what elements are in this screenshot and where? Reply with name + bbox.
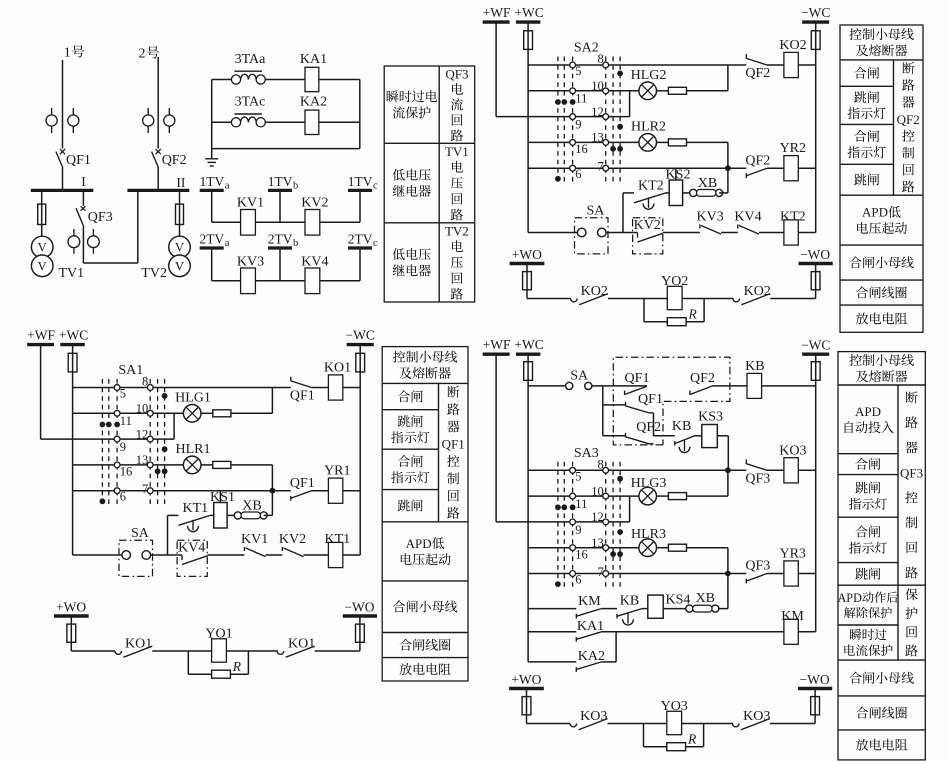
svg-text:KA2: KA2 — [300, 95, 327, 110]
svg-text:KT2: KT2 — [780, 209, 806, 224]
svg-text:3TAa: 3TAa — [235, 52, 267, 67]
svg-text:SA2: SA2 — [574, 41, 599, 56]
svg-text:R: R — [688, 306, 698, 321]
svg-text:KO3: KO3 — [580, 709, 607, 724]
svg-text:+WO: +WO — [56, 599, 86, 614]
svg-text:V: V — [38, 241, 47, 255]
svg-text:HLR1: HLR1 — [176, 442, 211, 457]
svg-text:KS2: KS2 — [666, 167, 691, 182]
svg-text:KA1: KA1 — [577, 619, 604, 634]
svg-text:KT1: KT1 — [324, 532, 350, 547]
svg-text:KO3: KO3 — [779, 443, 806, 458]
svg-text:SA1: SA1 — [118, 363, 143, 378]
svg-text:KV4: KV4 — [178, 541, 205, 556]
svg-text:6: 6 — [575, 572, 581, 586]
svg-text:KS4: KS4 — [666, 592, 691, 607]
svg-text:11: 11 — [575, 92, 587, 106]
svg-text:KV1: KV1 — [241, 532, 268, 547]
svg-text:V: V — [175, 241, 184, 255]
svg-text:KO2: KO2 — [581, 284, 608, 299]
svg-text:−WC: −WC — [801, 5, 830, 20]
svg-text:YO1: YO1 — [205, 626, 232, 641]
svg-text:1: 1 — [64, 46, 71, 61]
svg-text:SA: SA — [570, 369, 589, 384]
svg-text:QF2: QF2 — [897, 112, 920, 127]
svg-text:KS3: KS3 — [698, 409, 723, 424]
svg-text:1TV: 1TV — [268, 174, 293, 189]
svg-text:APD: APD — [838, 591, 863, 605]
svg-text:XB: XB — [698, 176, 717, 191]
svg-text:HLG3: HLG3 — [631, 476, 667, 491]
svg-text:TV2: TV2 — [141, 266, 167, 281]
svg-text:2TV: 2TV — [268, 232, 293, 247]
svg-text:QF1: QF1 — [290, 476, 315, 491]
svg-text:QF1: QF1 — [290, 389, 315, 404]
svg-text:YO2: YO2 — [661, 274, 688, 289]
svg-text:b: b — [293, 238, 298, 249]
svg-text:V: V — [175, 259, 184, 273]
svg-text:9: 9 — [575, 118, 581, 132]
svg-text:+WF: +WF — [483, 337, 511, 352]
svg-text:KM: KM — [781, 609, 804, 624]
svg-text:c: c — [373, 238, 378, 249]
svg-text:−WO: −WO — [800, 672, 830, 687]
svg-text:SA: SA — [586, 203, 605, 218]
svg-text:−WO: −WO — [344, 600, 374, 615]
svg-text:QF3: QF3 — [745, 471, 770, 486]
svg-text:KM: KM — [578, 594, 601, 609]
svg-text:−WO: −WO — [800, 247, 830, 262]
svg-text:11: 11 — [575, 497, 587, 511]
svg-text:KO1: KO1 — [324, 361, 351, 376]
svg-text:APD: APD — [855, 404, 881, 419]
svg-text:QF1: QF1 — [66, 153, 91, 168]
svg-text:a: a — [225, 238, 230, 249]
svg-text:16: 16 — [575, 547, 588, 561]
svg-text:KV1: KV1 — [237, 196, 264, 211]
svg-text:QF3: QF3 — [745, 559, 770, 574]
svg-text:TV1: TV1 — [59, 266, 85, 281]
svg-text:b: b — [293, 180, 298, 191]
svg-text:HLG1: HLG1 — [175, 391, 211, 406]
svg-text:2TV: 2TV — [200, 232, 225, 247]
svg-text:KV2: KV2 — [279, 532, 306, 547]
svg-text:YR2: YR2 — [780, 141, 806, 156]
svg-text:KV4: KV4 — [301, 255, 328, 270]
svg-text:11: 11 — [120, 414, 132, 428]
svg-text:KO1: KO1 — [125, 637, 152, 652]
svg-text:KB: KB — [620, 594, 639, 609]
svg-text:QF3: QF3 — [900, 465, 923, 480]
svg-text:KO2: KO2 — [779, 38, 806, 53]
svg-text:XB: XB — [242, 499, 261, 514]
svg-text:+WC: +WC — [514, 5, 543, 20]
svg-text:QF2: QF2 — [745, 66, 770, 81]
svg-text:c: c — [373, 180, 378, 191]
svg-text:XB: XB — [696, 591, 715, 606]
svg-text:KV3: KV3 — [237, 255, 264, 270]
svg-text:5: 5 — [575, 64, 581, 78]
svg-text:QF2: QF2 — [690, 371, 715, 386]
svg-text:YO3: YO3 — [661, 699, 688, 714]
svg-text:+WO: +WO — [512, 247, 542, 262]
svg-text:KV2: KV2 — [301, 196, 328, 211]
svg-text:II: II — [176, 175, 185, 190]
svg-text:HLR3: HLR3 — [631, 527, 666, 542]
svg-text:QF2: QF2 — [162, 153, 187, 168]
svg-text:KT1: KT1 — [182, 501, 208, 516]
svg-text:+WF: +WF — [27, 327, 55, 342]
svg-text:I: I — [81, 174, 86, 189]
svg-text:KS1: KS1 — [210, 490, 235, 505]
svg-text:KA1: KA1 — [300, 52, 327, 67]
svg-text:KT2: KT2 — [638, 178, 664, 193]
svg-text:QF2: QF2 — [745, 153, 770, 168]
svg-text:SA3: SA3 — [574, 446, 599, 461]
svg-text:6: 6 — [575, 167, 581, 181]
svg-text:APD: APD — [862, 205, 888, 220]
svg-text:1TV: 1TV — [200, 174, 225, 189]
svg-text:QF3: QF3 — [88, 210, 113, 225]
svg-text:KO3: KO3 — [743, 709, 770, 724]
svg-text:−WC: −WC — [346, 328, 375, 343]
svg-text:TV2: TV2 — [445, 223, 469, 238]
svg-text:KV3: KV3 — [696, 209, 723, 224]
svg-text:5: 5 — [120, 387, 126, 401]
svg-text:16: 16 — [120, 465, 133, 479]
svg-text:KB: KB — [672, 419, 691, 434]
svg-text:1TV: 1TV — [348, 174, 373, 189]
svg-text:KO1: KO1 — [288, 637, 315, 652]
svg-text:16: 16 — [575, 142, 588, 156]
svg-text:KV2: KV2 — [634, 218, 661, 233]
svg-text:SA: SA — [131, 526, 150, 541]
svg-text:HLR2: HLR2 — [631, 119, 666, 134]
svg-text:QF1: QF1 — [638, 392, 663, 407]
svg-text:APD: APD — [406, 536, 432, 551]
svg-text:QF1: QF1 — [625, 371, 650, 386]
svg-text:QF1: QF1 — [442, 437, 465, 452]
svg-text:KO2: KO2 — [744, 284, 771, 299]
svg-text:−WC: −WC — [801, 337, 830, 352]
svg-text:QF2: QF2 — [636, 420, 661, 435]
svg-text:QF3: QF3 — [445, 66, 468, 81]
svg-text:+WF: +WF — [483, 5, 511, 20]
svg-text:a: a — [225, 180, 230, 191]
svg-text:2TV: 2TV — [348, 232, 373, 247]
svg-text:KB: KB — [745, 359, 764, 374]
svg-text:+WC: +WC — [59, 327, 88, 342]
svg-text:5: 5 — [575, 469, 581, 483]
svg-text:HLG2: HLG2 — [631, 68, 667, 83]
svg-text:6: 6 — [120, 490, 126, 504]
svg-text:3TAc: 3TAc — [235, 95, 266, 110]
svg-text:9: 9 — [120, 440, 126, 454]
svg-text:YR1: YR1 — [324, 464, 350, 479]
svg-text:2: 2 — [139, 47, 146, 62]
svg-text:R: R — [687, 731, 697, 746]
svg-text:KA2: KA2 — [578, 649, 605, 664]
svg-text:+WC: +WC — [514, 337, 543, 352]
svg-text:+WO: +WO — [511, 672, 541, 687]
svg-text:YR3: YR3 — [779, 547, 805, 562]
svg-text:R: R — [232, 659, 242, 674]
svg-text:TV1: TV1 — [445, 144, 469, 159]
svg-text:9: 9 — [575, 523, 581, 537]
svg-text:KV4: KV4 — [734, 209, 761, 224]
svg-text:V: V — [38, 259, 47, 273]
